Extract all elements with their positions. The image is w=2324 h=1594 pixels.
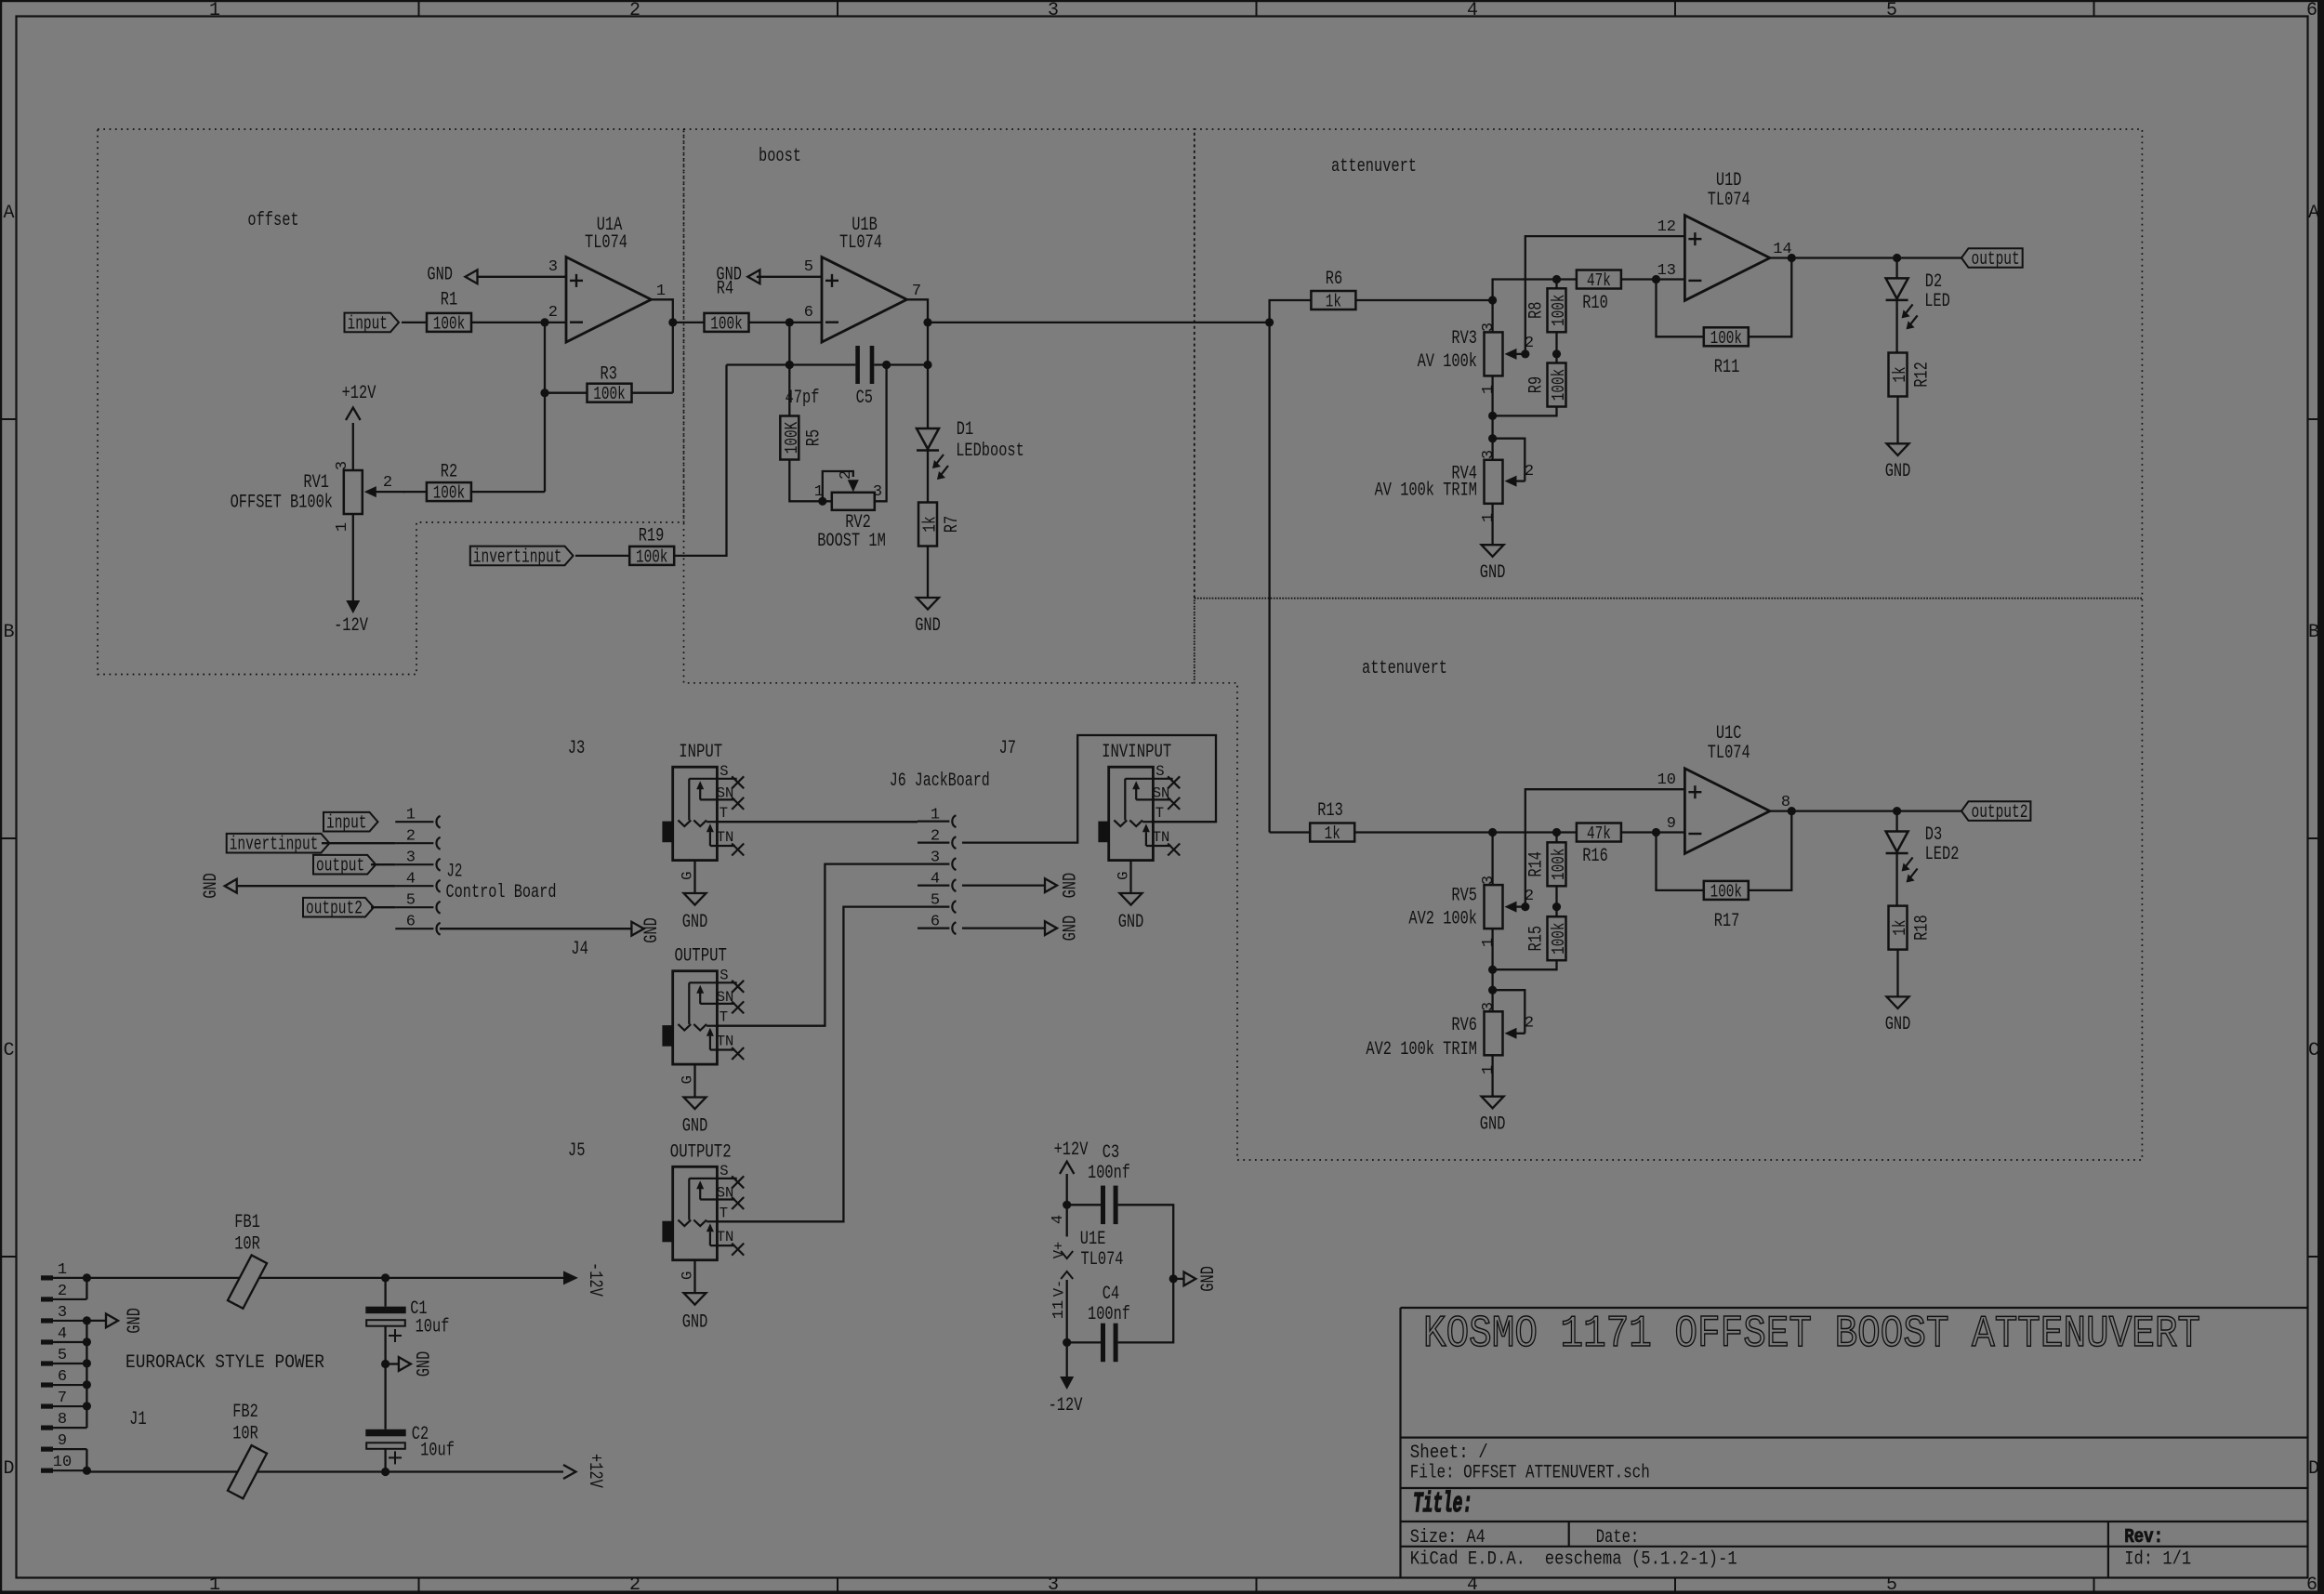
global label invertinput at J2 [227, 834, 330, 853]
svg-text:Control Board: Control Board [446, 882, 557, 903]
svg-text:FB2: FB2 [232, 1402, 258, 1423]
svg-text:C: C [2308, 1040, 2319, 1061]
pot RV2 BOOST 1M horizontal [832, 493, 875, 510]
svg-text:47k: 47k [1587, 823, 1611, 844]
RV4 wiper loop [1493, 439, 1525, 481]
svg-text:SN: SN [717, 784, 734, 801]
svg-text:input: input [326, 813, 367, 835]
node U1A inverting input [540, 318, 548, 326]
node U1A output [668, 318, 677, 326]
svg-text:SN: SN [1153, 784, 1170, 801]
svg-text:attenuvert: attenuvert [1331, 156, 1417, 178]
svg-text:47k: 47k [1587, 270, 1611, 291]
resistor R15 100k vertical [1555, 907, 1557, 917]
svg-text:J3: J3 [568, 738, 586, 759]
jack INPUT body [673, 767, 718, 860]
svg-text:1: 1 [814, 483, 824, 501]
frame column ticks [418, 2, 420, 17]
node RV5 bottom [1488, 966, 1497, 974]
svg-text:2: 2 [548, 304, 558, 322]
GND flag at U1B pin5 [757, 276, 822, 278]
pot RV6 AV2 100k TRIM [1485, 1011, 1503, 1055]
svg-text:-12V: -12V [334, 615, 368, 637]
svg-text:S: S [720, 967, 728, 983]
svg-text:R8: R8 [1525, 302, 1547, 319]
wire R4 to U1B pin6 [749, 322, 823, 323]
svg-text:4: 4 [58, 1325, 67, 1343]
svg-text:GND: GND [427, 265, 453, 286]
connector J6 JackBoard [918, 820, 949, 822]
svg-text:1: 1 [931, 807, 940, 824]
resistor R14 100k vertical [1555, 833, 1557, 843]
LED D3 LED2 [1895, 811, 1897, 832]
U1D output row [1770, 257, 1961, 258]
svg-text:3: 3 [1480, 450, 1498, 459]
svg-text:J6 JackBoard: J6 JackBoard [890, 771, 990, 792]
svg-text:3: 3 [334, 461, 351, 470]
op-amp U1C [1684, 769, 1770, 854]
ground below R7 [927, 547, 929, 599]
wire J6 pin3 to J4.T [717, 864, 918, 1026]
svg-text:1: 1 [209, 1574, 220, 1594]
resistor R16 47k [1577, 823, 1621, 842]
svg-text:U1E: U1E [1080, 1229, 1106, 1250]
svg-text:J5: J5 [568, 1140, 586, 1162]
svg-text:6: 6 [2306, 0, 2317, 21]
node U1B inverting input [786, 318, 794, 326]
svg-text:5: 5 [804, 258, 813, 276]
svg-text:13: 13 [1657, 262, 1676, 280]
GND flag between C1 C2 [381, 1360, 390, 1368]
svg-text:2: 2 [58, 1283, 67, 1300]
svg-text:1k: 1k [1890, 366, 1910, 382]
resistor R8 100k vertical [1555, 280, 1557, 289]
global label output2 at J2 [303, 898, 374, 917]
ground below R12 [1896, 397, 1898, 444]
svg-text:6: 6 [2306, 1574, 2317, 1594]
svg-text:4: 4 [1467, 1574, 1478, 1594]
svg-text:T: T [720, 1205, 728, 1221]
resistor R4 100k [705, 313, 749, 332]
svg-text:GND: GND [1885, 1014, 1911, 1035]
jack OUTPUT2 body [673, 1166, 718, 1259]
RV5 wiper row nodes [1521, 902, 1529, 911]
svg-text:7: 7 [58, 1390, 67, 1407]
svg-text:attenuvert: attenuvert [1362, 658, 1447, 679]
svg-text:3: 3 [58, 1304, 67, 1322]
op-amp U1B [822, 257, 907, 343]
global label output [1961, 248, 2023, 268]
node U1C inverting input [1652, 828, 1660, 837]
resistor R6 1k [1311, 291, 1355, 310]
GND flag at J1 pin3 [86, 1320, 106, 1322]
svg-text:TN: TN [1153, 829, 1170, 846]
LED D1 LEDboost [927, 365, 929, 429]
svg-text:RV6: RV6 [1451, 1015, 1477, 1036]
svg-text:Title:: Title: [1413, 1488, 1472, 1521]
op-amp U1D [1684, 216, 1770, 301]
svg-text:3: 3 [406, 850, 416, 867]
svg-text:TN: TN [717, 1034, 734, 1050]
U1C output row [1770, 810, 1961, 811]
svg-text:GND: GND [682, 1116, 708, 1138]
wire R9 bottom to RV3 pin1 [1493, 407, 1557, 416]
node R8 top [1552, 275, 1561, 283]
ferrite bead FB2 10R [228, 1445, 267, 1498]
resistor R2 100k [427, 482, 471, 501]
wire R16 to U1C pin9 [1620, 831, 1684, 833]
svg-text:R14: R14 [1525, 851, 1547, 877]
resistor R13 1k [1310, 823, 1354, 842]
svg-text:R3: R3 [601, 364, 617, 386]
svg-text:Id: 1/1: Id: 1/1 [2124, 1549, 2191, 1571]
vertical from output node to feedback row [927, 323, 929, 365]
svg-text:J1: J1 [129, 1409, 147, 1430]
svg-text:R6: R6 [1326, 269, 1342, 290]
node RV3 bottom [1488, 412, 1497, 420]
svg-text:R11: R11 [1714, 357, 1740, 378]
svg-text:GND: GND [1060, 916, 1081, 942]
wire R5 to RV2 [789, 460, 832, 502]
wire J6 pin2 to J7.T [962, 735, 1216, 843]
svg-text:6: 6 [931, 914, 940, 931]
capacitor C5 47pf [855, 346, 860, 384]
connector J2 Control Board [395, 821, 433, 823]
U1C pin10 wire to RV5 wiper [1525, 789, 1685, 906]
svg-text:Date:: Date: [1596, 1527, 1640, 1548]
svg-text:AV2 100k TRIM: AV2 100k TRIM [1366, 1039, 1477, 1060]
global label output2 [1961, 801, 2030, 821]
svg-text:AV2 100k: AV2 100k [1408, 909, 1477, 930]
svg-text:D: D [2308, 1458, 2319, 1480]
svg-text:100k: 100k [1710, 881, 1742, 902]
svg-text:Rev:: Rev: [2124, 1527, 2163, 1548]
resistor R18 1k vertical [1889, 906, 1908, 950]
svg-text:D3: D3 [1925, 824, 1942, 846]
svg-text:100k: 100k [593, 384, 625, 404]
svg-text:10: 10 [53, 1454, 72, 1471]
capacitor C2 10uf [365, 1429, 405, 1437]
wire D1 to R7 [927, 451, 929, 503]
svg-text:GND: GND [682, 912, 708, 933]
wire R1 to U1A pin2 [471, 322, 566, 323]
node RV3 top [1488, 296, 1497, 304]
global label input at J2 [324, 812, 378, 832]
svg-text:INVINPUT: INVINPUT [1102, 742, 1171, 763]
C3/C4 right side to GND [1118, 1205, 1174, 1342]
U1D pin12 wire to RV3 wiper [1525, 236, 1685, 354]
svg-text:3: 3 [1048, 0, 1059, 21]
svg-text:C4: C4 [1103, 1284, 1119, 1305]
node R14 top [1552, 828, 1561, 837]
svg-text:1: 1 [1480, 1065, 1498, 1074]
svg-text:7: 7 [912, 283, 921, 300]
svg-text:input: input [348, 313, 389, 335]
svg-text:3: 3 [873, 483, 882, 501]
wire R15 bottom to RV5 pin1 [1493, 960, 1557, 969]
pot RV4 AV 100k TRIM [1485, 460, 1503, 504]
svg-text:output: output [1972, 249, 2020, 270]
svg-text:10uf: 10uf [420, 1441, 455, 1462]
svg-text:T: T [720, 805, 728, 822]
LED D2 [1895, 258, 1897, 279]
svg-text:KOSMO 1171 OFFSET BOOST ATTENU: KOSMO 1171 OFFSET BOOST ATTENUVERT [1423, 1310, 2200, 1360]
node C4 / V- [1063, 1338, 1071, 1347]
svg-text:C: C [3, 1040, 14, 1061]
svg-text:G: G [679, 872, 695, 880]
svg-text:2: 2 [1525, 1015, 1534, 1033]
node RV4 wiper tie [1488, 434, 1497, 442]
feedback resistor R17 100k [1657, 833, 1704, 890]
svg-text:10: 10 [1657, 771, 1676, 789]
global label output at J2 [313, 855, 376, 875]
svg-text:EURORACK STYLE POWER: EURORACK STYLE POWER [125, 1352, 324, 1374]
svg-text:GND: GND [1480, 1114, 1506, 1136]
svg-text:R1: R1 [441, 290, 457, 311]
svg-text:R2: R2 [441, 462, 457, 483]
ferrite bead FB1 10R [228, 1255, 267, 1308]
resistor R9 100k vertical [1555, 354, 1557, 363]
svg-text:11: 11 [1050, 1300, 1068, 1319]
svg-text:R10: R10 [1582, 293, 1608, 314]
svg-text:SN: SN [717, 989, 734, 1006]
svg-text:10uf: 10uf [416, 1317, 450, 1338]
RV3 wiper row nodes [1521, 349, 1529, 358]
+12V arrow at U1E [1060, 1162, 1074, 1174]
svg-text:GND: GND [682, 1311, 708, 1333]
svg-text:U1D: U1D [1716, 170, 1742, 191]
svg-text:AV 100k: AV 100k [1418, 351, 1477, 373]
ground below RV4 [1491, 504, 1493, 545]
svg-text:1: 1 [1480, 385, 1498, 394]
svg-text:AV 100k TRIM: AV 100k TRIM [1375, 481, 1477, 502]
resistor R12 1k vertical [1889, 353, 1908, 397]
capacitor C1 10uf [381, 1273, 390, 1282]
wire J3.T to J6 pin1 [717, 821, 918, 823]
svg-text:R5: R5 [803, 429, 825, 446]
GND flag at J2 pin4 [237, 885, 396, 887]
svg-text:4: 4 [931, 871, 940, 889]
-12V arrow below U1E [1066, 1342, 1068, 1377]
+12V power arrow at RV1 [352, 423, 354, 470]
pot RV1 OFFSET B100k [344, 470, 363, 514]
global label input [345, 313, 400, 333]
svg-text:+12V: +12V [342, 383, 376, 404]
wire RV2 pin3 up to feedback row [875, 365, 887, 502]
svg-text:100k: 100k [1549, 369, 1569, 401]
svg-text:Sheet: /: Sheet: / [1410, 1443, 1488, 1464]
svg-text:TL074: TL074 [839, 232, 882, 254]
frame row ticks [2, 418, 17, 420]
svg-text:GND: GND [414, 1351, 435, 1377]
svg-text:3: 3 [1480, 1002, 1498, 1011]
svg-text:boost: boost [759, 146, 801, 167]
resistor R7 1k vertical [918, 503, 937, 547]
svg-text:invertinput: invertinput [230, 835, 319, 856]
svg-text:3: 3 [548, 258, 558, 276]
resistor R1 100k [427, 313, 471, 332]
svg-text:12: 12 [1657, 218, 1676, 236]
svg-text:100nf: 100nf [1088, 1304, 1130, 1325]
svg-text:D2: D2 [1925, 271, 1942, 293]
svg-text:GND: GND [1885, 461, 1911, 482]
wire J6 pin5 to J5.T [717, 907, 918, 1222]
capacitor C3 100nf [1067, 1204, 1101, 1205]
svg-text:2: 2 [629, 1574, 640, 1594]
svg-text:S: S [720, 763, 728, 780]
boost block outline [684, 129, 1195, 683]
svg-text:1: 1 [1480, 938, 1498, 947]
svg-text:KiCad E.D.A. eeschema (5.1.2-: KiCad E.D.A. eeschema (5.1.2-1)-1 [1410, 1549, 1737, 1571]
svg-text:GND: GND [915, 615, 941, 637]
svg-text:SN: SN [717, 1185, 734, 1202]
node RV2 pin1 [818, 497, 826, 506]
connector J1 power header [43, 1277, 86, 1279]
title block outline [1401, 1307, 2308, 1309]
svg-text:3: 3 [1480, 323, 1498, 332]
svg-text:R7: R7 [942, 516, 963, 533]
svg-text:100k: 100k [636, 547, 667, 567]
wire R13 to R16 [1354, 831, 1578, 833]
svg-text:100K: 100K [782, 421, 802, 454]
svg-text:3: 3 [1480, 876, 1498, 885]
svg-text:8: 8 [58, 1411, 67, 1429]
svg-text:100nf: 100nf [1088, 1163, 1130, 1184]
svg-text:BOOST 1M: BOOST 1M [817, 531, 886, 552]
svg-text:1k: 1k [1890, 920, 1910, 936]
svg-text:R18: R18 [1911, 915, 1933, 941]
svg-text:Size: A4: Size: A4 [1410, 1527, 1486, 1548]
svg-text:1k: 1k [1326, 292, 1341, 312]
svg-text:+12V: +12V [584, 1454, 605, 1488]
U1E V- pin [1061, 1271, 1073, 1279]
svg-text:output2: output2 [1972, 802, 2028, 823]
svg-text:1: 1 [656, 283, 666, 300]
svg-text:R9: R9 [1525, 376, 1547, 393]
jack INVINPUT body [1109, 767, 1154, 860]
svg-text:5: 5 [1886, 0, 1897, 21]
svg-text:10R: 10R [234, 1234, 260, 1256]
svg-text:invertinput: invertinput [473, 547, 562, 568]
svg-text:OFFSET B100k: OFFSET B100k [231, 493, 333, 514]
svg-text:2: 2 [1525, 335, 1534, 352]
svg-text:G: G [1115, 872, 1131, 880]
wire into R13 [1270, 831, 1311, 833]
pot RV5 AV2 100k [1491, 833, 1493, 886]
node D3 branch [1893, 807, 1901, 815]
svg-text:GND: GND [641, 917, 663, 943]
svg-text:TL074: TL074 [1708, 743, 1750, 764]
svg-text:2: 2 [931, 828, 940, 846]
ground below R18 [1896, 950, 1898, 997]
svg-text:9: 9 [58, 1432, 67, 1450]
svg-text:3: 3 [1048, 1574, 1059, 1594]
svg-text:5: 5 [931, 892, 940, 910]
ground below RV6 [1491, 1055, 1493, 1096]
wire input to R1 [402, 322, 427, 323]
GND flag at U1A pin3 [478, 276, 567, 278]
svg-text:1k: 1k [1325, 823, 1340, 844]
svg-text:R19: R19 [639, 526, 665, 547]
pot RV3 AV 100k [1491, 300, 1493, 332]
svg-text:100k: 100k [433, 313, 465, 334]
svg-text:FB1: FB1 [234, 1212, 260, 1233]
svg-text:B: B [3, 622, 14, 643]
svg-text:D1: D1 [957, 419, 973, 441]
node wire split to R6 and R13 [1265, 318, 1274, 326]
svg-text:TL074: TL074 [585, 232, 627, 254]
feedback row with C5 [788, 323, 790, 365]
svg-text:RV5: RV5 [1451, 886, 1477, 907]
svg-text:GND: GND [1198, 1266, 1220, 1292]
svg-text:GND: GND [125, 1308, 146, 1334]
node U1B output [923, 318, 931, 326]
svg-text:100k: 100k [1549, 923, 1569, 955]
svg-text:INPUT: INPUT [679, 742, 722, 763]
svg-text:LED2: LED2 [1925, 844, 1960, 865]
svg-text:S: S [1155, 763, 1164, 780]
wire R10 to U1D pin13 [1620, 278, 1684, 280]
-12V power arrow at RV1 [352, 514, 354, 600]
wire R19 up to feedback row [674, 365, 727, 556]
svg-text:OUTPUT: OUTPUT [675, 946, 727, 968]
capacitor C4 100nf [1067, 1341, 1101, 1343]
wire D3 to R18 [1895, 853, 1897, 906]
wire U1B output to attenuverters [928, 322, 1270, 323]
GND flag at J2 pin6 [440, 928, 632, 929]
svg-text:S: S [720, 1163, 728, 1179]
svg-text:10R: 10R [232, 1424, 258, 1445]
svg-text:R17: R17 [1714, 911, 1740, 932]
GND flag at J6 pin6 [962, 927, 1045, 929]
invertinput label to R19 [470, 547, 574, 566]
attenuvert block outline (lower) [1195, 599, 2143, 1160]
wire U1A output [652, 299, 705, 323]
wire up and over to R8/R10 node [1493, 280, 1557, 301]
node D2 branch [1893, 254, 1901, 262]
svg-text:9: 9 [1667, 815, 1676, 833]
wire R2 to RV1 wiper [403, 491, 428, 493]
svg-text:1: 1 [406, 807, 416, 824]
jack OUTPUT body [673, 971, 718, 1064]
svg-text:V-: V- [1050, 1280, 1067, 1298]
svg-text:100k: 100k [433, 483, 465, 504]
resistor R19 100k [629, 547, 674, 565]
svg-text:C5: C5 [856, 388, 873, 409]
U1E V+ pin [1066, 1205, 1068, 1236]
svg-text:100k: 100k [710, 313, 742, 334]
svg-text:R12: R12 [1911, 362, 1933, 388]
svg-text:100k: 100k [1549, 849, 1569, 880]
svg-text:G: G [679, 1271, 695, 1280]
GND flag at J6 pin4 [962, 884, 1045, 886]
svg-text:100k: 100k [1549, 295, 1569, 326]
svg-text:2: 2 [383, 474, 392, 492]
svg-text:TL074: TL074 [1708, 190, 1750, 211]
attenuvert block outline (upper) [1195, 129, 2143, 599]
svg-text:output2: output2 [306, 899, 363, 920]
svg-text:G: G [679, 1075, 695, 1084]
svg-text:A: A [3, 203, 14, 224]
svg-text:GND: GND [201, 873, 222, 899]
svg-text:D: D [3, 1458, 14, 1480]
svg-text:B: B [2308, 622, 2319, 643]
svg-text:GND: GND [1480, 562, 1506, 584]
node U1D inverting input [1652, 275, 1660, 283]
svg-text:+12V: +12V [1054, 1140, 1089, 1161]
wire U1B output [907, 299, 929, 323]
svg-text:1k: 1k [919, 516, 940, 532]
